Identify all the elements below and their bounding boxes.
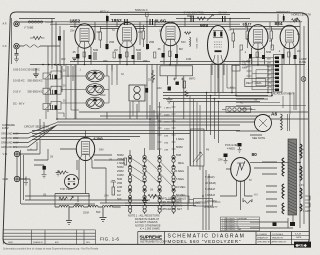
staircase junction dots	[206, 92, 273, 103]
wire: bus crossing tube row y26.5	[70, 27, 300, 30]
wire: mid vertical bundle 190s	[190, 96, 200, 170]
condenser box B1	[166, 196, 221, 206]
switch cell S1a	[43, 71, 61, 80]
wire: 80 tube leads	[220, 162, 300, 210]
wire: misc verticals mid	[40, 65, 137, 134]
wire: left lower links	[27, 140, 48, 200]
coil curls transformer bottom	[243, 198, 252, 203]
wire: bottom buses	[21, 196, 150, 204]
wire: shield box mid	[160, 66, 193, 76]
tube V8 80 rectifier	[231, 158, 251, 182]
wire: verticals from top bus to tubes	[75, 14, 278, 50]
electrolytic plus marks	[173, 78, 184, 81]
ground symbols tube V1	[33, 58, 77, 77]
checklist text block	[222, 217, 247, 231]
wire: staircase bus right-center	[163, 93, 272, 102]
wire: top-left jack wires	[19, 22, 60, 46]
cap C near 80 tube	[238, 143, 242, 153]
tube V1 1852	[75, 24, 94, 48]
switch column upper extensions	[158, 102, 176, 154]
tube V5 6SJ7	[248, 25, 268, 50]
wire: verticals tube row to mid bus	[75, 50, 272, 150]
socket plug P1	[65, 175, 79, 189]
resistor mid vertical	[166, 81, 188, 103]
pot bottom	[148, 194, 160, 199]
switch cell S1c	[43, 102, 61, 111]
jack J3	[14, 151, 19, 156]
wire: under 6J5G to bottom	[79, 160, 106, 203]
contact strip TS1	[274, 55, 283, 93]
wire: verticals under tube pins row1	[78, 45, 295, 78]
wire: verticals middle bottom	[188, 166, 209, 230]
switch cell joins	[46, 65, 147, 120]
wire: right mid horizontals	[236, 93, 306, 115]
twisted pair input	[24, 21, 43, 47]
attenuator chain R13	[172, 154, 176, 214]
wire: left vertical bus lines	[12, 18, 24, 204]
wire: contact strip fan	[252, 58, 275, 90]
ground symbol chain	[66, 196, 148, 225]
revision table	[3, 230, 95, 245]
cap C below transformer	[290, 222, 295, 226]
output transformer T3	[281, 114, 290, 131]
pilot lamp PL1	[301, 77, 306, 82]
6J5G cathode resistor network	[56, 158, 127, 195]
series cap C on top bus	[106, 13, 225, 26]
resistor R zigzag sync pot	[197, 15, 214, 21]
wire: 6J5G area	[60, 131, 125, 171]
wire: top main bus y21.8	[19, 21, 300, 23]
coil bank L1	[86, 70, 104, 82]
scattered value labels	[30, 30, 304, 215]
wire: lower-left box	[55, 194, 89, 208]
wire: transformer bottom leads	[250, 215, 293, 228]
jack J2	[14, 44, 19, 49]
jack J1	[14, 21, 19, 26]
transformer T1 secondary winding	[300, 144, 302, 211]
wire: top-left verticals	[48, 18, 64, 112]
wire: top bus y14.5	[110, 14, 230, 16]
wire: mid horizontal bus bundle	[57, 112, 308, 125]
tube V7 6J5G	[76, 137, 94, 160]
wire: circuit selector diagonal fan	[13, 123, 57, 148]
coil bank L2	[86, 84, 104, 96]
junction dots switch col	[42, 64, 59, 66]
small box right of CRT	[232, 66, 240, 72]
logo stamp	[294, 242, 311, 248]
attenuator diagonal links	[131, 158, 172, 186]
tube V3 6L6G	[161, 22, 181, 46]
wire: left jack J3/J4 leads	[20, 154, 40, 179]
capacitor C cluster tube V1	[76, 52, 96, 60]
cap C horiz-length	[283, 16, 285, 21]
sweep box U1	[245, 79, 266, 87]
wire: CRT pin verticals	[211, 65, 236, 99]
inductor chain bottom	[55, 205, 121, 207]
cap cluster mid	[168, 82, 179, 91]
amplifier block U2	[191, 129, 205, 166]
switch cell S1b	[43, 86, 61, 95]
tube V2 1852	[117, 22, 137, 47]
coil bank L3	[86, 97, 104, 109]
cap to ground mid	[224, 154, 228, 164]
supreme logo box	[140, 234, 168, 243]
note text block	[128, 214, 161, 231]
component value labels top row	[61, 40, 301, 63]
tube labels	[70, 18, 283, 158]
terminal row TS2	[222, 107, 256, 113]
coil L vert-centering	[185, 32, 191, 47]
tube V6 884	[280, 25, 299, 49]
fuse bracket right	[305, 196, 310, 207]
wire: transformer primary leads	[254, 162, 277, 212]
attenuator chain R11	[143, 154, 147, 214]
capacitor C cluster tube V3	[146, 44, 178, 58]
title text	[168, 233, 246, 244]
capacitor to ground jack J2	[14, 49, 19, 62]
capacitor C cluster tube V5/V6	[240, 45, 297, 59]
transformer T1 core	[288, 139, 297, 215]
output tube V9	[255, 115, 272, 132]
wire: right vertical bus	[296, 22, 304, 228]
wire: top bus y18.5	[19, 18, 250, 20]
resistor R horiz-length	[284, 14, 302, 23]
jack J4 GND	[14, 176, 28, 185]
transformer T1 primary winding	[282, 158, 284, 214]
switch S4 vertical	[247, 58, 252, 78]
note2 text block	[161, 197, 186, 212]
title block fields	[257, 233, 302, 244]
cap + ground lower-left	[42, 166, 61, 178]
wire: right-mid horizontals	[236, 96, 272, 135]
checklist box	[221, 217, 260, 231]
osc coil T2	[129, 85, 148, 101]
misc small labels	[1, 8, 311, 214]
tube V4 908 CRT	[208, 26, 229, 65]
wire: top bus y24.2	[50, 23, 240, 25]
wire: center vertical bundle	[150, 105, 158, 150]
inter-tube resistors	[99, 25, 273, 48]
label column attn	[117, 137, 218, 209]
resistor mid zigzag2	[151, 70, 154, 83]
wire: attenuator bottom bus	[100, 203, 200, 206]
attenuator chain R12	[158, 154, 162, 214]
attenuator chain R10	[128, 154, 132, 214]
resistor network top-left	[30, 36, 61, 41]
capacitor C cluster tube V2	[106, 44, 141, 60]
wire: bus under tube row y64.5	[30, 62, 305, 65]
wire: attenuator top links	[130, 131, 174, 154]
